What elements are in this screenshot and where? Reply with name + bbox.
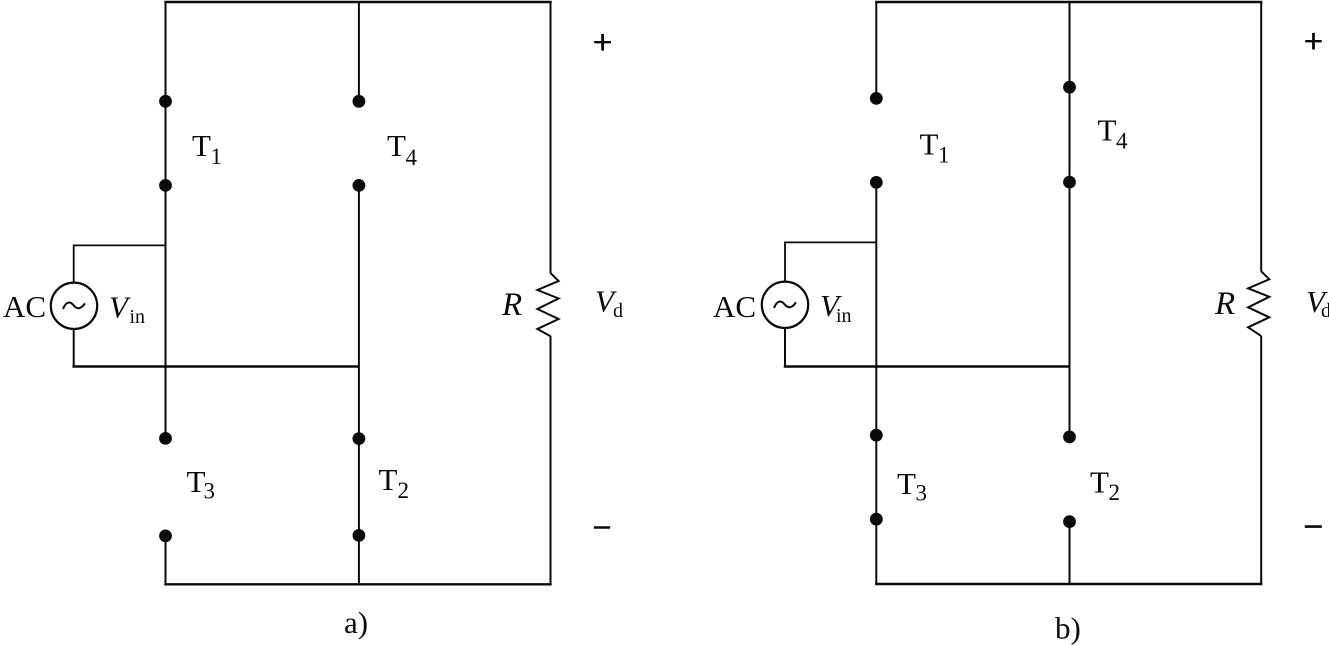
svg-text:1: 1 xyxy=(938,142,950,167)
svg-text:3: 3 xyxy=(204,479,216,504)
svg-text:V: V xyxy=(109,289,131,324)
svg-text:T: T xyxy=(1098,113,1117,148)
svg-text:1: 1 xyxy=(211,144,223,169)
svg-text:2: 2 xyxy=(398,478,410,503)
svg-text:d: d xyxy=(613,300,623,322)
svg-text:R: R xyxy=(1214,286,1235,322)
svg-text:in: in xyxy=(836,305,852,327)
svg-text:T: T xyxy=(1090,464,1109,499)
svg-text:in: in xyxy=(130,306,146,328)
svg-text:4: 4 xyxy=(1116,129,1128,154)
svg-text:b): b) xyxy=(1055,611,1081,645)
svg-text:4: 4 xyxy=(406,145,418,170)
svg-text:T: T xyxy=(897,466,916,501)
svg-text:d: d xyxy=(1321,300,1329,322)
svg-text:AC: AC xyxy=(713,289,756,324)
svg-text:2: 2 xyxy=(1109,480,1121,505)
svg-text:T: T xyxy=(192,128,211,163)
svg-text:T: T xyxy=(379,462,398,497)
svg-text:AC: AC xyxy=(3,289,46,324)
svg-text:T: T xyxy=(387,128,406,163)
svg-text:3: 3 xyxy=(916,480,928,505)
svg-text:T: T xyxy=(920,127,939,162)
svg-text:R: R xyxy=(501,287,522,323)
svg-text:a): a) xyxy=(344,605,368,640)
